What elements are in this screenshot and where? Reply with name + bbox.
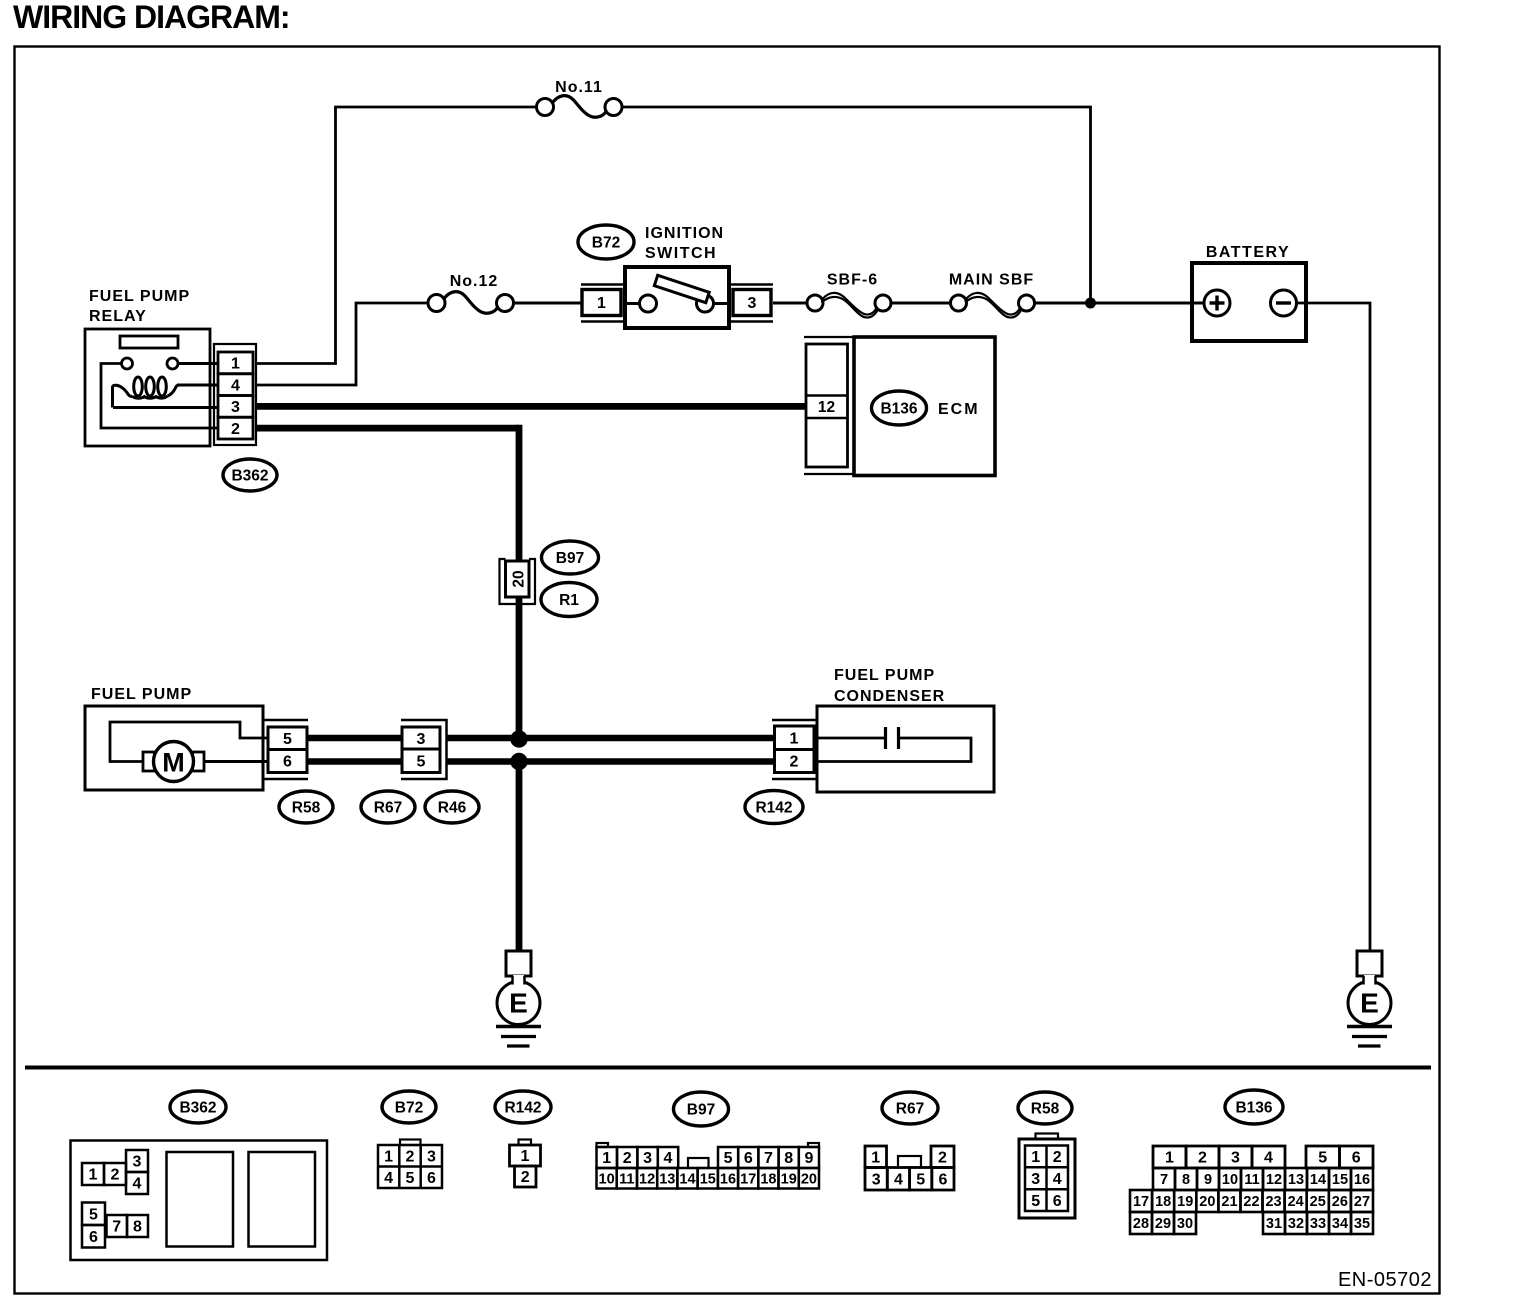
wire R67 pin5 to condenser pin2 <box>447 758 775 765</box>
svg-text:16: 16 <box>720 1171 736 1187</box>
ECM pin 12 <box>818 399 835 416</box>
connector R58 pinout label <box>1018 1092 1072 1124</box>
connector R142 label <box>745 791 803 824</box>
svg-text:17: 17 <box>1133 1194 1149 1210</box>
svg-text:8: 8 <box>1182 1172 1190 1188</box>
connector B72 (ignition switch) <box>578 225 634 259</box>
battery body <box>1192 263 1306 341</box>
connector B136 (ECM) <box>872 391 927 425</box>
B362 pin 3 <box>126 1150 148 1172</box>
relay pin 3 <box>218 396 253 418</box>
svg-text:35: 35 <box>1354 1216 1370 1232</box>
inline connector pin 20 <box>506 561 530 597</box>
section separator line <box>25 1066 1431 1070</box>
fuel pump condenser label <box>834 667 945 705</box>
svg-text:18: 18 <box>760 1171 776 1187</box>
svg-text:B362: B362 <box>231 468 268 485</box>
connector B97 label <box>542 541 599 574</box>
svg-text:5: 5 <box>1031 1193 1040 1210</box>
svg-text:No.11: No.11 <box>555 79 603 96</box>
svg-text:B97: B97 <box>687 1102 715 1119</box>
svg-text:1: 1 <box>1031 1149 1040 1166</box>
connector B136 pinout label <box>1225 1090 1283 1124</box>
svg-text:34: 34 <box>1332 1216 1348 1232</box>
fuel pump condenser body <box>817 706 994 792</box>
svg-text:28: 28 <box>1133 1216 1149 1232</box>
ground E right connector box <box>1357 951 1382 976</box>
connector B72 pinout label <box>382 1091 436 1123</box>
fuse SBF-6 label <box>827 272 878 289</box>
ECM pin column <box>806 344 848 467</box>
svg-text:ECM: ECM <box>938 401 980 418</box>
svg-text:10: 10 <box>1222 1172 1238 1188</box>
svg-text:30: 30 <box>1177 1216 1193 1232</box>
relay contact bar <box>120 336 178 348</box>
ignition switch contact right <box>697 295 714 312</box>
fuel pump pin 5 <box>268 727 307 750</box>
svg-text:5: 5 <box>1318 1150 1327 1167</box>
fuel pump internal wire upper <box>110 722 268 762</box>
svg-text:3: 3 <box>1031 1171 1040 1188</box>
connector R46 label <box>425 791 479 823</box>
svg-text:RELAY: RELAY <box>89 308 147 325</box>
connector R1 label <box>541 583 597 617</box>
svg-text:M: M <box>162 748 185 778</box>
svg-text:7: 7 <box>1160 1172 1168 1188</box>
condenser pin 1 <box>775 726 815 750</box>
connector R142 pinout label <box>495 1091 551 1123</box>
svg-text:20: 20 <box>1199 1194 1215 1210</box>
svg-text:15: 15 <box>1332 1172 1348 1188</box>
ignition switch pin 3 shell <box>729 285 773 322</box>
ground E left symbol <box>497 975 540 1025</box>
svg-text:B72: B72 <box>395 1100 423 1117</box>
svg-text:1: 1 <box>1165 1150 1174 1167</box>
svg-text:8: 8 <box>133 1219 142 1236</box>
wire fuel pump pin6 to R67 pin5 <box>307 758 402 765</box>
ECM body <box>854 337 995 476</box>
battery positive terminal <box>1204 290 1230 316</box>
ignition switch lever <box>654 275 709 302</box>
svg-text:R67: R67 <box>896 1101 924 1118</box>
svg-text:FUEL PUMP: FUEL PUMP <box>834 667 935 684</box>
svg-text:R46: R46 <box>438 800 467 817</box>
ECM connector shell <box>804 337 854 474</box>
svg-text:EN-05702: EN-05702 <box>1338 1269 1432 1291</box>
svg-text:18: 18 <box>1155 1194 1171 1210</box>
wire battery negative to ground E <box>1297 303 1371 951</box>
relay pin 4 <box>218 374 253 396</box>
junction battery node <box>1085 298 1096 309</box>
svg-text:9: 9 <box>804 1150 813 1167</box>
svg-text:5: 5 <box>89 1206 98 1223</box>
B362 pin 1 <box>82 1163 104 1185</box>
svg-text:33: 33 <box>1310 1216 1326 1232</box>
svg-text:B72: B72 <box>592 235 620 252</box>
fuse No.11 <box>537 96 623 118</box>
wire No.12 fuse to ignition switch pin 1 <box>514 302 583 305</box>
svg-text:7: 7 <box>764 1150 773 1167</box>
svg-text:26: 26 <box>1332 1194 1348 1210</box>
ground E left connector box <box>506 951 531 976</box>
connector B72 pinout body <box>378 1140 442 1189</box>
connector R67 label <box>361 791 415 823</box>
svg-text:R58: R58 <box>292 800 321 817</box>
fuel pump body <box>85 706 263 790</box>
svg-text:2: 2 <box>231 421 240 438</box>
wire junction to ground E <box>516 762 523 952</box>
svg-text:11: 11 <box>1244 1172 1259 1188</box>
svg-text:6: 6 <box>283 754 292 771</box>
ground E right strokes <box>1347 1027 1392 1047</box>
svg-text:FUEL PUMP: FUEL PUMP <box>89 288 190 305</box>
svg-text:1: 1 <box>871 1149 880 1166</box>
svg-text:1: 1 <box>790 731 799 748</box>
condenser pin 2 <box>775 750 815 773</box>
ignition switch pin 1 shell <box>581 285 625 322</box>
svg-text:1: 1 <box>231 356 240 373</box>
svg-text:2: 2 <box>1053 1149 1062 1166</box>
ground E left strokes <box>496 1027 541 1047</box>
svg-text:3: 3 <box>1231 1150 1240 1167</box>
svg-text:10: 10 <box>599 1171 615 1187</box>
wire relay pin 2 down to connector B97/R1 <box>256 425 519 561</box>
connector R67 pinout label <box>882 1092 938 1124</box>
svg-text:2: 2 <box>521 1169 530 1186</box>
ignition switch label <box>645 225 724 262</box>
svg-text:19: 19 <box>781 1171 797 1187</box>
fuel pump motor M <box>154 742 194 782</box>
B362 pin 4 <box>126 1172 148 1194</box>
fuse MAIN SBF label <box>949 272 1034 289</box>
fuse No.12 label <box>450 273 499 290</box>
svg-text:6: 6 <box>744 1150 753 1167</box>
connector R67/R46 pin 3 <box>402 727 440 749</box>
wire R67 pin3 to condenser pin1 <box>447 735 775 742</box>
svg-text:2: 2 <box>1198 1150 1207 1167</box>
wire relay left contact to pin 2 <box>101 364 218 429</box>
svg-text:9: 9 <box>1204 1172 1212 1188</box>
svg-text:R67: R67 <box>374 800 402 817</box>
svg-text:4: 4 <box>1264 1150 1273 1167</box>
svg-text:20: 20 <box>510 570 527 587</box>
connector B362 pinout body <box>71 1141 328 1261</box>
fuel pump internal wire lower <box>204 760 268 763</box>
relay contact left <box>122 358 133 369</box>
svg-text:2: 2 <box>623 1150 632 1167</box>
B362 pin 2 <box>104 1163 126 1185</box>
svg-text:B136: B136 <box>1235 1100 1272 1117</box>
svg-text:21: 21 <box>1221 1194 1237 1210</box>
connector R67/R46 pin 5 <box>402 749 440 773</box>
svg-text:3: 3 <box>872 1171 881 1188</box>
svg-text:2: 2 <box>938 1149 947 1166</box>
svg-text:E: E <box>1360 987 1379 1018</box>
svg-text:13: 13 <box>1288 1172 1304 1188</box>
svg-text:6: 6 <box>427 1170 436 1187</box>
fuse MAIN SBF <box>951 293 1035 318</box>
svg-text:CONDENSER: CONDENSER <box>834 688 945 705</box>
wire relay coil to pin 3 <box>113 406 218 409</box>
svg-text:32: 32 <box>1288 1216 1304 1232</box>
svg-text:IGNITION: IGNITION <box>645 225 724 242</box>
fuel pump label <box>91 686 192 703</box>
wire fuel pump pin5 to R67 pin3 <box>307 735 402 742</box>
title WIRING DIAGRAM: <box>13 0 290 35</box>
ignition switch contact left <box>640 295 657 312</box>
svg-text:4: 4 <box>231 377 240 394</box>
svg-text:16: 16 <box>1354 1172 1370 1188</box>
svg-text:4: 4 <box>384 1170 393 1187</box>
svg-text:5: 5 <box>724 1150 733 1167</box>
svg-text:SBF-6: SBF-6 <box>827 272 878 289</box>
connector B97 pinout label <box>674 1092 729 1126</box>
svg-text:E: E <box>509 987 528 1018</box>
svg-text:R142: R142 <box>504 1100 541 1117</box>
svg-text:6: 6 <box>938 1171 947 1188</box>
svg-text:14: 14 <box>679 1171 695 1187</box>
svg-text:1: 1 <box>521 1148 530 1165</box>
connector B136 pinout body <box>1130 1146 1373 1234</box>
B362 relay cavity right <box>249 1152 316 1247</box>
connector R142 pinout body <box>510 1140 541 1188</box>
fuel pump motor brush left <box>143 752 155 771</box>
B362 pin 7 <box>107 1215 128 1237</box>
svg-text:1: 1 <box>89 1167 98 1184</box>
svg-text:R58: R58 <box>1031 1101 1060 1118</box>
svg-text:3: 3 <box>133 1154 142 1171</box>
battery negative terminal <box>1271 290 1297 316</box>
relay connector shell <box>214 344 256 445</box>
svg-text:No.12: No.12 <box>450 273 499 290</box>
svg-text:1: 1 <box>597 295 606 312</box>
wire SBF-6 to MAIN SBF <box>891 302 951 305</box>
svg-text:BATTERY: BATTERY <box>1206 244 1290 261</box>
inline connector B97/R1 shell <box>500 559 536 604</box>
wire relay pin 4 to No.12 fuse <box>256 303 429 385</box>
svg-text:29: 29 <box>1155 1216 1171 1232</box>
svg-text:19: 19 <box>1177 1194 1193 1210</box>
svg-text:5: 5 <box>406 1170 415 1187</box>
condenser connector shell <box>772 720 817 779</box>
svg-text:6: 6 <box>1352 1150 1361 1167</box>
wire battery positive <box>1192 302 1205 305</box>
junction node lower <box>510 753 527 770</box>
svg-text:FUEL PUMP: FUEL PUMP <box>91 686 192 703</box>
svg-text:2: 2 <box>790 754 799 771</box>
connector R58 pinout body <box>1019 1134 1075 1219</box>
svg-text:12: 12 <box>639 1171 655 1187</box>
svg-text:13: 13 <box>659 1171 675 1187</box>
svg-text:8: 8 <box>784 1150 793 1167</box>
svg-text:17: 17 <box>740 1171 756 1187</box>
svg-text:R142: R142 <box>755 800 792 817</box>
fuel pump connector shell <box>265 720 309 779</box>
relay contact right <box>167 358 178 369</box>
capacitor C <box>817 727 971 762</box>
svg-text:15: 15 <box>700 1171 716 1187</box>
svg-text:1: 1 <box>602 1150 611 1167</box>
svg-text:B97: B97 <box>556 550 584 567</box>
svg-text:B362: B362 <box>179 1100 216 1117</box>
svg-text:1: 1 <box>384 1149 393 1166</box>
fuel pump relay body <box>85 329 210 446</box>
battery label <box>1206 244 1290 261</box>
B362 pin 6 <box>82 1225 105 1248</box>
svg-text:4: 4 <box>894 1171 903 1188</box>
wire relay coil to pin 4 <box>177 384 218 387</box>
fuel pump pin 6 <box>268 750 307 773</box>
B362 pin 8 <box>127 1215 148 1237</box>
fuse No.12 <box>428 292 514 314</box>
svg-text:SWITCH: SWITCH <box>645 245 717 262</box>
svg-text:3: 3 <box>427 1149 436 1166</box>
wire relay pin 3 to ECM pin 12 <box>256 403 806 410</box>
svg-text:6: 6 <box>89 1229 98 1246</box>
connector R67/R46 shell <box>401 720 447 779</box>
svg-text:27: 27 <box>1354 1194 1370 1210</box>
svg-text:WIRING DIAGRAM:: WIRING DIAGRAM: <box>13 0 290 35</box>
svg-text:3: 3 <box>231 399 240 416</box>
svg-text:5: 5 <box>283 731 292 748</box>
svg-text:12: 12 <box>1266 1172 1282 1188</box>
svg-text:24: 24 <box>1288 1194 1304 1210</box>
fuse No.11 label <box>555 79 603 96</box>
ignition switch body <box>625 267 729 328</box>
fuel pump relay label <box>89 288 190 325</box>
junction node upper <box>510 730 527 747</box>
connector B362 <box>223 459 277 491</box>
B362 pin 5 <box>82 1203 105 1226</box>
fuse SBF-6 <box>807 293 891 318</box>
svg-text:2: 2 <box>406 1149 415 1166</box>
svg-text:11: 11 <box>619 1171 634 1187</box>
svg-text:B136: B136 <box>880 401 917 418</box>
connector R67 pinout body <box>865 1146 954 1190</box>
wire relay right contact to pin 1 <box>178 362 218 365</box>
wire connector to junction <box>516 597 523 739</box>
B362 relay cavity left <box>167 1152 234 1247</box>
svg-text:22: 22 <box>1243 1194 1259 1210</box>
svg-text:31: 31 <box>1266 1216 1282 1232</box>
wire switch contact to pin3 <box>714 302 730 305</box>
wire MAIN SBF to battery <box>1035 302 1193 305</box>
wire No.11 fuse to battery node <box>622 107 1091 303</box>
drawing number EN-05702 <box>1338 1269 1432 1291</box>
svg-text:3: 3 <box>748 295 757 312</box>
svg-text:5: 5 <box>417 754 426 771</box>
svg-text:R1: R1 <box>559 592 579 609</box>
ECM label <box>938 401 980 418</box>
relay coil <box>113 377 179 408</box>
fuel pump motor brush right <box>193 752 205 771</box>
svg-text:4: 4 <box>664 1150 673 1167</box>
connector B362 pinout label <box>170 1091 226 1123</box>
svg-text:20: 20 <box>801 1171 817 1187</box>
ground E right symbol <box>1348 975 1391 1025</box>
ignition switch pin 1 <box>582 290 621 316</box>
ignition switch pin 3 <box>733 290 771 316</box>
relay pin 1 <box>218 352 253 374</box>
svg-text:3: 3 <box>417 731 426 748</box>
svg-text:7: 7 <box>112 1219 121 1236</box>
wire switch pin1 to contact <box>625 302 640 305</box>
svg-text:5: 5 <box>916 1171 925 1188</box>
connector R58 label <box>279 791 333 823</box>
svg-text:3: 3 <box>643 1150 652 1167</box>
wire ignition switch to fuse SBF-6 <box>773 302 808 305</box>
svg-text:14: 14 <box>1310 1172 1326 1188</box>
svg-text:MAIN SBF: MAIN SBF <box>949 272 1034 289</box>
svg-text:6: 6 <box>1053 1193 1062 1210</box>
connector B97 pinout body <box>597 1143 820 1189</box>
svg-text:4: 4 <box>133 1176 142 1193</box>
svg-text:4: 4 <box>1053 1171 1062 1188</box>
svg-text:23: 23 <box>1265 1194 1281 1210</box>
svg-text:12: 12 <box>818 399 835 416</box>
svg-text:2: 2 <box>111 1167 120 1184</box>
svg-text:25: 25 <box>1310 1194 1326 1210</box>
wire relay pin 1 to No.11 fuse <box>256 107 537 364</box>
relay pin 2 <box>218 417 253 439</box>
